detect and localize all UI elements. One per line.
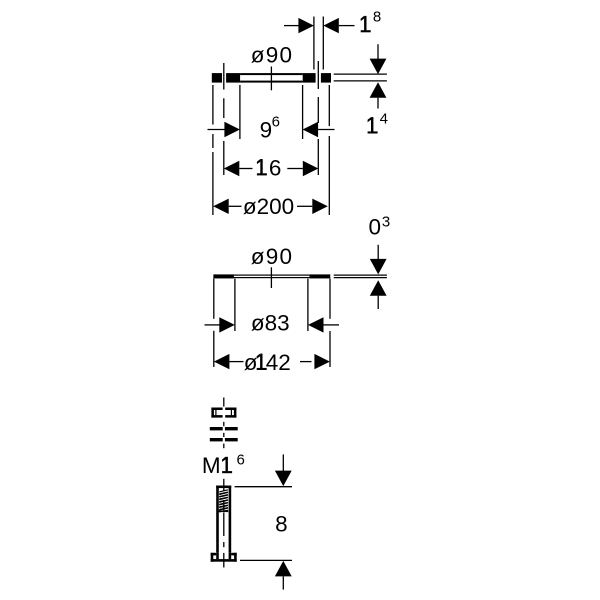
- label M1.6: [202, 452, 245, 479]
- svg-text:ø200: ø200: [243, 194, 294, 219]
- dimension 0.3 extension lines: [334, 275, 387, 278]
- dimension 8 extension lines: [235, 487, 292, 561]
- svg-text:6: 6: [269, 155, 282, 180]
- label ø142: [244, 350, 291, 375]
- dimension 9.6 extension lines: [240, 85, 303, 139]
- dimension 8 arrows: [275, 454, 292, 589]
- dimension 16 extension lines (pass through plate grooves): [224, 61, 318, 175]
- svg-text:9: 9: [260, 118, 273, 143]
- screw body: [216, 486, 231, 553]
- dimension 1.4 arrows: [370, 44, 387, 108]
- label 16: [257, 155, 282, 180]
- svg-text:ø90: ø90: [251, 244, 293, 269]
- svg-text:3: 3: [382, 214, 390, 231]
- dimension ø142 arrows: [214, 354, 330, 369]
- svg-text:6: 6: [237, 452, 245, 469]
- svg-text:0: 0: [369, 215, 382, 240]
- plate cross-section bar: [212, 73, 331, 83]
- dimension 1.4 extension lines: [334, 74, 387, 81]
- svg-text:M: M: [202, 453, 221, 478]
- center line of fastener stack: [223, 398, 225, 449]
- svg-text:8: 8: [275, 512, 288, 537]
- dimension ø83 extension lines: [235, 279, 308, 331]
- svg-text:ø: ø: [244, 350, 258, 375]
- dimension ø83 arrows: [205, 317, 340, 332]
- center line of disc: [270, 267, 272, 288]
- svg-text:4: 4: [380, 111, 388, 128]
- svg-text:42: 42: [266, 350, 291, 375]
- dimension 1.8 arrows: [284, 18, 355, 33]
- center line of screw: [223, 479, 225, 568]
- nut cross-section (top view symbol): [211, 407, 236, 419]
- dimension 9.6 arrows: [208, 122, 335, 137]
- svg-text:ø90: ø90: [251, 42, 293, 67]
- svg-text:ø83: ø83: [251, 310, 290, 335]
- dimension ø142 extension lines: [214, 279, 330, 367]
- washer 2 cross-section: [210, 438, 238, 441]
- dimension 1.8 extension lines: [314, 17, 323, 70]
- dimension 0.3 arrows: [370, 245, 387, 309]
- label 0.3: [369, 214, 391, 240]
- screw thread zigzag: [219, 490, 228, 512]
- screw head: [211, 553, 237, 562]
- dimension 16 arrows: [224, 161, 318, 176]
- thin disc cross-section: [213, 274, 330, 278]
- washer 1 cross-section: [210, 427, 238, 430]
- dimension ø200 arrows: [213, 199, 328, 214]
- label 9.6: [260, 114, 280, 143]
- svg-text:6: 6: [272, 114, 280, 131]
- dimension ø200 extension lines: [213, 85, 329, 215]
- svg-text:8: 8: [373, 9, 381, 26]
- label 1.4: [368, 111, 388, 134]
- center line of plate: [270, 67, 272, 91]
- label 1.8: [361, 9, 382, 33]
